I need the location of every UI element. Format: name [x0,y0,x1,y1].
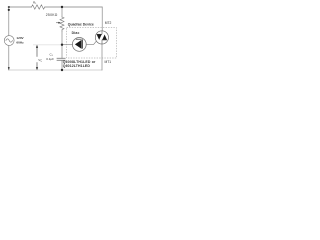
svg-text:Diac: Diac [72,31,80,35]
wire top rail right [45,6,102,8]
svg-text:120V: 120V [16,36,24,40]
svg-text:MT2: MT2 [105,21,112,25]
svg-text:Q6012LTH1LED: Q6012LTH1LED [63,64,91,68]
junction dot bottom rail cap [61,69,63,71]
bottom rail wire [9,69,102,71]
ac source V1 120V 60Hz [4,36,14,46]
capacitor C1 plates [57,58,65,60]
potentiometer R2 250K [60,17,64,31]
triac internals [97,31,107,44]
wire left vertical top [8,7,10,36]
svg-text:0.1μF: 0.1μF [46,57,54,61]
wire left vertical bottom [8,45,10,70]
resistor R1 [32,5,45,9]
svg-text:MT1: MT1 [105,60,112,64]
wire top rail left [9,6,32,8]
corner blob top left [8,6,10,8]
wire capacitor branch [61,45,63,59]
wire pot to junction [61,31,63,45]
diac circle [72,38,86,52]
Vc dashed reference line [34,44,62,46]
svg-text:250KΩ: 250KΩ [46,13,58,17]
junction dot diac node [61,44,63,46]
svg-text:Quadrac Device: Quadrac Device [68,22,94,26]
junction dot top left [8,9,10,11]
Vc up arrow [36,45,38,57]
pot wiper arrow [56,22,61,24]
wire capacitor to bottom rail [61,60,63,70]
Vc down arrow [36,62,38,70]
quadrac dashed box [67,28,117,58]
wire junction to diac [62,44,73,46]
wire MT1 drop [101,44,103,70]
svg-text:R1: R1 [33,1,37,5]
triac circle [95,31,108,44]
gate wire diac to triac [86,41,96,44]
junction dot top rail pot tap [61,6,63,8]
svg-text:VC: VC [38,58,42,63]
potentiometer branch wire [61,7,63,17]
junction arrow bottom left [8,67,10,70]
wire MT2 drop [101,7,103,31]
diac internals [75,39,83,49]
svg-text:60Hz: 60Hz [16,41,24,45]
